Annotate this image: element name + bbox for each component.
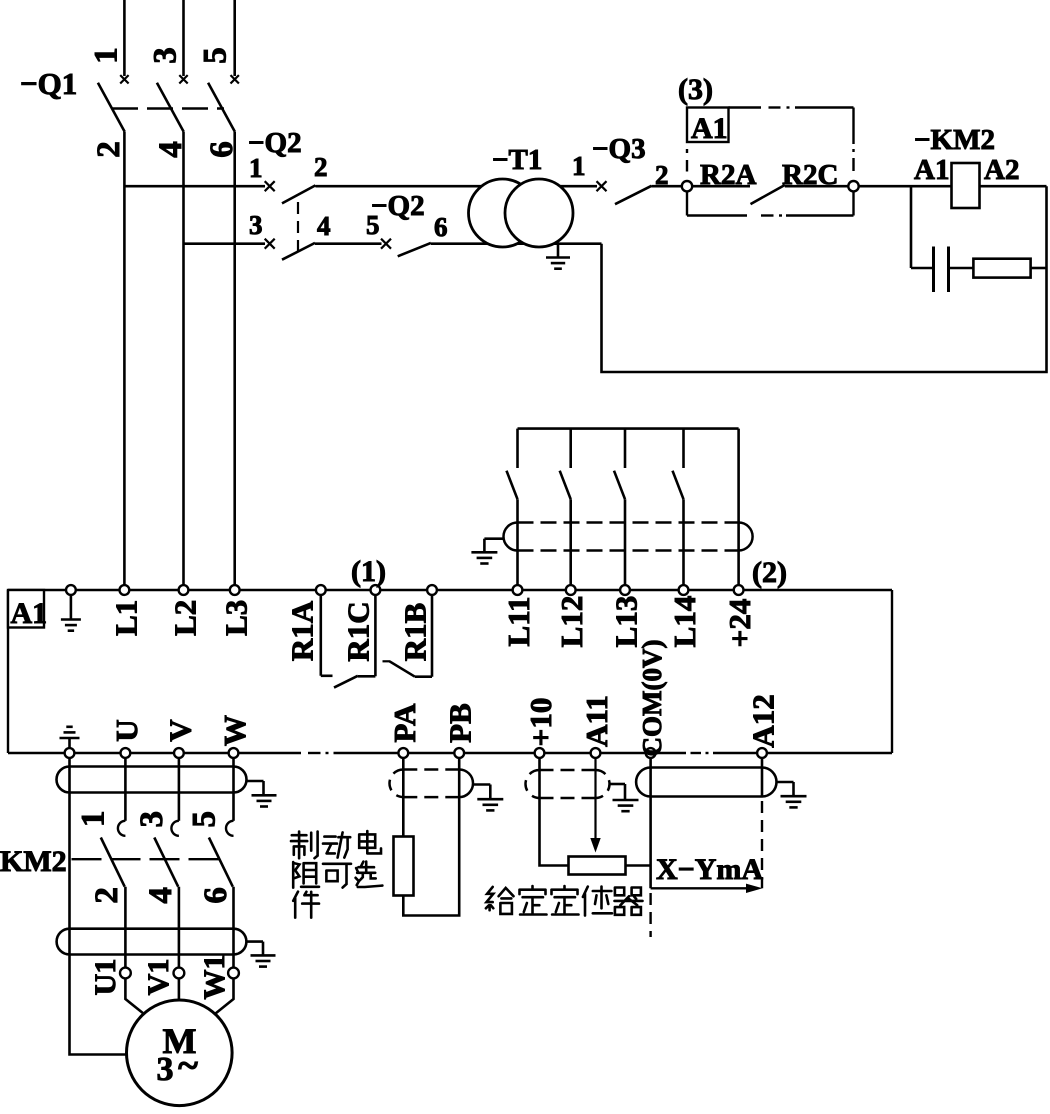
breaker Q1 blade pole1 (98, 83, 125, 132)
svg-text:3: 3 (157, 1051, 174, 1088)
terminal L11 (513, 585, 523, 595)
shield motor cable 1 (57, 767, 247, 793)
hanzi qi (615, 888, 643, 915)
breaker Q1 linkage (112, 107, 224, 109)
svg-text:L11: L11 (501, 597, 536, 647)
signal X-YmA arrow (651, 887, 748, 889)
svg-text:−Q1: −Q1 (20, 66, 77, 101)
terminal R1B (427, 585, 437, 595)
shield3 ground hook (473, 783, 490, 786)
svg-text:3: 3 (134, 811, 170, 828)
svg-text:U: U (109, 719, 144, 741)
switch Q2 contact 3-4 (265, 239, 275, 249)
wire pot to COM (626, 864, 651, 867)
hanzi ke (323, 864, 351, 888)
wire branch to Q2 pin1 (124, 185, 265, 188)
shield brake resistor (dashed) (403, 768, 459, 771)
contactor KM2 contact 5-6 (226, 821, 234, 836)
switch S2 (569, 429, 572, 468)
terminal A12 (757, 748, 767, 758)
tag A1 inverter (8, 590, 44, 628)
relay contact R2A-R2C (751, 185, 785, 204)
svg-text:4: 4 (317, 211, 331, 241)
inverter box A1 (8, 589, 892, 591)
control bus +24 (518, 427, 739, 430)
wire PE to motor (70, 758, 127, 1055)
terminal L2 (179, 585, 189, 595)
svg-text:−Q3: −Q3 (592, 133, 646, 165)
wire feeder L2 top (182, 0, 185, 76)
wire COM down (649, 758, 652, 888)
ground PE top (70, 595, 73, 619)
relay R1 contacts inside (319, 595, 322, 676)
wire L2 vertical to inverter (182, 132, 185, 586)
hanzi jian (293, 892, 319, 918)
svg-text:1: 1 (89, 47, 125, 64)
svg-text:A1: A1 (691, 112, 728, 145)
svg-text:A11: A11 (579, 695, 614, 747)
hanzi wei (583, 887, 612, 916)
shield COM-A12 cable (636, 768, 776, 797)
switch S3 (624, 429, 627, 468)
terminal PB (454, 748, 464, 758)
switch Q2 contact 1-2 (265, 181, 275, 191)
terminal R2C (848, 181, 858, 191)
terminal L1 (120, 585, 130, 595)
svg-text:R2A: R2A (700, 159, 756, 191)
wire W (232, 758, 235, 821)
wire R2A (692, 185, 750, 188)
terminal COM(0V) (646, 748, 656, 758)
svg-text:−KM2: −KM2 (914, 124, 995, 156)
hanzi ding2 (552, 886, 579, 915)
wire V (178, 758, 181, 821)
terminal PE top (66, 585, 76, 595)
svg-text:−T1: −T1 (492, 144, 542, 176)
terminal W (229, 748, 239, 758)
wire V1 to motor (178, 978, 181, 1000)
ground at T1 (557, 244, 560, 257)
wire Q2 pin6 to T1 (431, 242, 602, 245)
svg-text:W: W (217, 715, 252, 746)
wire R2C to KM2 coil (859, 185, 952, 188)
terminal W1 (228, 968, 239, 979)
terminal L13 (620, 585, 630, 595)
resistor brake (394, 837, 414, 896)
svg-text:5: 5 (366, 210, 380, 240)
RC snubber branch (910, 186, 913, 268)
terminal +24 (734, 585, 744, 595)
svg-text:PB: PB (443, 703, 478, 743)
wire Q2 pin2 to T1 (315, 185, 597, 188)
wire U (124, 758, 127, 821)
shield motor cable 2 (57, 929, 247, 955)
svg-text:1: 1 (76, 810, 112, 827)
hanzi dong (323, 832, 350, 857)
svg-text:A12: A12 (746, 694, 781, 747)
breaker Q1 blade pole2 (157, 83, 184, 132)
switch S4 (682, 429, 685, 468)
svg-text:(1): (1) (351, 555, 386, 588)
wire coil A2 side (980, 185, 1047, 188)
svg-text:A1: A1 (914, 154, 949, 186)
svg-text:L14: L14 (667, 596, 702, 648)
wire PA (402, 758, 405, 837)
shield5 ground hook (777, 781, 794, 784)
shield2 ground hook (246, 940, 263, 943)
control return wire bottom loop (602, 186, 1047, 372)
hanzi zhi (291, 832, 318, 859)
terminal L3 (230, 585, 240, 595)
svg-text:KM2: KM2 (0, 845, 67, 878)
svg-text:V: V (162, 719, 197, 742)
svg-text:2: 2 (91, 141, 127, 158)
svg-text:A2: A2 (984, 154, 1019, 186)
terminal U (121, 748, 131, 758)
svg-text:6: 6 (434, 212, 448, 242)
svg-text:~: ~ (178, 1045, 198, 1087)
wire L1 vertical to inverter (123, 132, 126, 586)
wire feeder L1 top (123, 0, 126, 76)
relay output block A1 (phantom box) (729, 106, 762, 108)
hanzi gei (486, 887, 514, 914)
terminal U1 (120, 968, 131, 979)
resistor snubber (973, 259, 1030, 278)
svg-text:3: 3 (249, 210, 263, 240)
svg-text:R1B: R1B (398, 603, 433, 662)
svg-text:A1: A1 (11, 597, 48, 630)
wire L3 vertical to inverter (233, 132, 236, 586)
svg-text:2: 2 (89, 887, 125, 904)
terminal V1 (174, 968, 185, 979)
switch S1 (516, 429, 519, 468)
terminal L14 (679, 585, 689, 595)
svg-text:R1A: R1A (285, 600, 320, 661)
wire W1 to motor (216, 978, 234, 1013)
svg-text:1: 1 (572, 151, 586, 181)
hanzi dian (359, 831, 381, 853)
wire U1 to motor (125, 978, 142, 1013)
svg-text:(3): (3) (678, 73, 713, 106)
shield1 ground hook (247, 780, 264, 783)
coil KM2 (952, 163, 980, 208)
svg-text:5: 5 (198, 47, 234, 64)
svg-text:1: 1 (249, 153, 263, 183)
terminal R1C (371, 585, 381, 595)
svg-text:V1: V1 (142, 959, 175, 996)
terminal PA (398, 748, 408, 758)
wire feeder L3 top (233, 0, 236, 76)
terminal V (174, 748, 184, 758)
shield ground hook (484, 537, 504, 540)
wire A12 down (dashed) (761, 758, 764, 798)
hanzi xuan (356, 862, 383, 887)
shield4 ground hook (610, 783, 626, 786)
switch Q3 (597, 181, 607, 191)
hanzi ding1 (520, 886, 547, 915)
svg-text:2: 2 (314, 152, 328, 182)
wire +24 (737, 429, 740, 586)
switch Q2 linkage (297, 202, 299, 259)
ground PE bottom (68, 739, 71, 749)
tag A1 (687, 108, 729, 143)
shield pot cable (dashed) (540, 769, 596, 772)
contactor KM2 contact 1-2 (118, 821, 126, 836)
terminal L12 (566, 585, 576, 595)
shield control cable (518, 521, 739, 524)
svg-text:6: 6 (198, 887, 234, 904)
transformer T1 (469, 179, 537, 247)
breaker Q1 fixed contacts (120, 75, 128, 83)
svg-text:R1C: R1C (341, 601, 376, 661)
svg-text:R2C: R2C (782, 159, 838, 191)
wire A11 wiper arrow (594, 758, 596, 840)
svg-text:L1: L1 (109, 600, 144, 636)
terminal PE bottom (65, 748, 75, 758)
svg-text:+10: +10 (523, 698, 558, 747)
svg-text:U1: U1 (89, 959, 122, 996)
svg-text:L2: L2 (168, 600, 203, 636)
svg-text:L3: L3 (219, 600, 254, 636)
svg-text:W1: W1 (198, 955, 231, 1000)
svg-text:4: 4 (143, 887, 179, 904)
potentiometer (569, 857, 626, 875)
KM2 linkage (72, 858, 227, 860)
switch Q2 contact 5-6 (381, 239, 391, 249)
svg-text:PA: PA (387, 703, 422, 743)
wire branch to Q2 pin3 (184, 242, 266, 245)
wire Q2 pin4 to pin5 (315, 242, 382, 245)
hanzi zu (293, 862, 319, 888)
terminal R2A (682, 181, 692, 191)
contactor KM2 contact 3-4 (171, 821, 179, 836)
svg-text:COM(0V): COM(0V) (637, 640, 667, 757)
svg-text:5: 5 (187, 811, 223, 828)
wire R2C (785, 185, 849, 188)
terminal A11 (591, 748, 601, 758)
svg-text:3: 3 (148, 47, 184, 64)
capacitor plates (932, 247, 935, 293)
terminal +10 (535, 748, 545, 758)
wire Q3 to R2A terminal (652, 185, 683, 188)
motor M (127, 1000, 233, 1106)
breaker Q1 blade pole3 (208, 83, 235, 132)
svg-text:X−YmA: X−YmA (656, 853, 763, 886)
wire +10 to pot (540, 758, 569, 866)
svg-text:+24: +24 (722, 599, 757, 648)
terminal R1A (316, 585, 326, 595)
svg-text:L12: L12 (554, 596, 589, 648)
svg-text:(2): (2) (752, 556, 787, 589)
